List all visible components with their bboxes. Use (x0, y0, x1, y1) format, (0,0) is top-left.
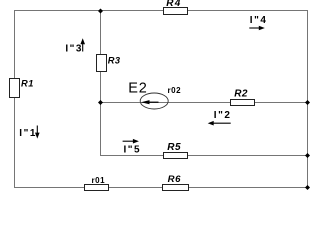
current arrow I3 up (80, 38, 85, 51)
svg-text:I"2: I"2 (214, 110, 232, 121)
current arrow I4 right (249, 26, 264, 31)
junction right / R5 wire (305, 153, 310, 158)
resistor R4 (164, 8, 188, 15)
current arrow I5 right (123, 139, 139, 144)
current arrow I1 down (35, 126, 40, 139)
svg-text:R4: R4 (166, 0, 181, 9)
wire left (14, 10, 16, 188)
source E2 ellipse (140, 93, 168, 109)
svg-text:R3: R3 (108, 56, 121, 66)
wire bottom (14, 187, 308, 189)
svg-text:R5: R5 (167, 142, 181, 153)
wire mid vertical (100, 10, 102, 156)
svg-text:R6: R6 (168, 174, 182, 185)
wire R5 row (100, 155, 308, 157)
wire middle horizontal (100, 102, 308, 104)
resistor R2 (231, 100, 255, 106)
svg-text:I"1: I"1 (19, 128, 37, 139)
wire right (307, 10, 309, 188)
resistor R1 (10, 79, 20, 98)
svg-text:I"4: I"4 (250, 15, 268, 26)
resistor R6 (163, 185, 189, 191)
svg-text:R2: R2 (234, 88, 248, 99)
svg-text:I"5: I"5 (124, 144, 142, 155)
junction right / bottom wire (305, 185, 310, 190)
resistor R3 (97, 55, 107, 72)
junction right / middle wire (305, 100, 310, 105)
svg-text:r01: r01 (92, 176, 106, 185)
junction mid vertical / middle wire (98, 100, 103, 105)
svg-text:r02: r02 (168, 86, 182, 95)
svg-text:E2: E2 (128, 80, 147, 96)
svg-text:R1: R1 (21, 78, 34, 88)
junction at top of mid vertical (98, 9, 103, 14)
resistor R5 (164, 153, 188, 159)
source E2 arrow (141, 100, 159, 104)
current arrow I2 left (208, 121, 231, 126)
svg-text:I"3: I"3 (65, 43, 83, 54)
wire top (14, 10, 308, 12)
resistor r01 (85, 185, 109, 191)
